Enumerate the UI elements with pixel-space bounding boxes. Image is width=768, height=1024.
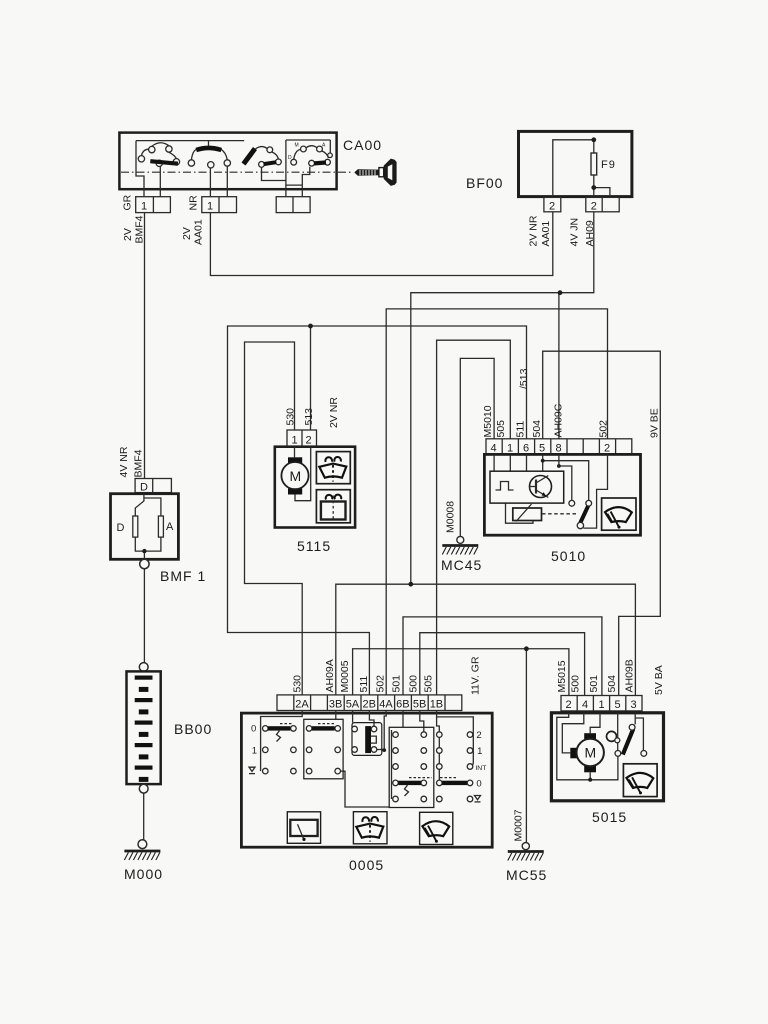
svg-text:1: 1 [252,745,257,756]
svg-text:3B: 3B [329,699,342,711]
svg-text:CA00: CA00 [343,137,382,153]
svg-text:5A: 5A [346,699,360,711]
svg-text:GR: GR [122,194,134,210]
svg-text:5115: 5115 [297,538,331,554]
svg-text:1: 1 [292,435,298,447]
svg-text:6: 6 [523,443,529,455]
svg-text:502: 502 [375,675,387,693]
svg-text:513: 513 [303,408,315,426]
svg-text:5015: 5015 [592,809,627,825]
svg-text:BMF4: BMF4 [133,449,145,477]
svg-text:A: A [166,521,174,533]
svg-text:D: D [117,522,125,534]
svg-text:INT: INT [475,765,486,772]
svg-text:2V: 2V [122,228,134,241]
svg-text:MC45: MC45 [441,557,482,573]
svg-text:AH09B: AH09B [624,659,636,692]
svg-text:4: 4 [582,699,588,711]
svg-text:2: 2 [566,699,572,711]
svg-text:11V. GR: 11V. GR [470,656,482,695]
svg-text:502: 502 [598,420,610,438]
svg-text:5010: 5010 [551,548,586,564]
svg-text:AH09C: AH09C [553,403,565,437]
svg-text:504: 504 [606,675,618,693]
svg-text:M0008: M0008 [445,501,457,533]
svg-text:3: 3 [631,699,637,711]
svg-text:M0007: M0007 [513,809,525,841]
svg-text:/513: /513 [518,368,530,389]
svg-text:2V: 2V [181,227,193,240]
svg-text:0005: 0005 [349,857,384,873]
svg-text:1: 1 [507,443,513,455]
svg-text:2: 2 [591,201,597,213]
svg-text:2B: 2B [363,699,376,711]
svg-text:8: 8 [556,443,562,455]
svg-text:AH09A: AH09A [324,659,336,692]
svg-text:AH09: AH09 [584,220,596,246]
svg-text:0: 0 [251,724,256,735]
svg-text:4V NR: 4V NR [118,446,130,477]
svg-text:5: 5 [539,443,545,455]
svg-text:2: 2 [604,443,610,455]
svg-text:BB00: BB00 [174,721,212,737]
svg-text:511: 511 [358,676,370,693]
svg-text:M0005: M0005 [339,660,351,692]
svg-text:2: 2 [476,730,481,741]
svg-text:M: M [290,468,302,484]
svg-text:5B: 5B [413,699,426,711]
svg-text:AA01: AA01 [193,219,205,245]
svg-text:M5010: M5010 [482,405,494,437]
svg-text:2: 2 [549,201,555,213]
svg-text:505: 505 [423,675,435,693]
svg-text:2V NR: 2V NR [528,215,540,246]
svg-text:AA01: AA01 [540,221,552,247]
svg-text:BF00: BF00 [466,175,503,191]
svg-text:2: 2 [306,435,312,447]
svg-text:500: 500 [570,675,582,693]
svg-text:2A: 2A [295,699,309,711]
svg-text:2V NR: 2V NR [328,397,340,428]
svg-text:5V BA: 5V BA [653,665,665,695]
svg-text:501: 501 [588,675,600,693]
svg-text:NR: NR [188,195,200,211]
svg-text:F9: F9 [601,159,616,171]
svg-text:M000: M000 [124,866,163,882]
svg-text:4: 4 [491,443,497,455]
svg-text:6B: 6B [396,699,409,711]
svg-text:4A: 4A [379,699,393,711]
svg-text:D: D [140,482,148,494]
svg-text:500: 500 [408,675,420,693]
svg-text:0: 0 [476,779,481,790]
svg-text:1: 1 [207,201,213,213]
svg-text:MC55: MC55 [506,867,547,883]
svg-text:5: 5 [615,699,621,711]
svg-text:504: 504 [531,420,543,438]
svg-text:1: 1 [141,201,147,213]
svg-text:M: M [295,143,299,149]
svg-text:505: 505 [495,420,507,438]
svg-text:BMF4: BMF4 [134,215,146,243]
svg-text:1: 1 [477,746,482,757]
svg-text:D: D [288,155,292,161]
svg-text:BMF 1: BMF 1 [160,568,206,584]
svg-text:1: 1 [599,699,605,711]
svg-text:9V BE: 9V BE [649,408,661,438]
svg-text:4V JN: 4V JN [569,218,581,247]
svg-text:530: 530 [292,675,304,693]
svg-text:M: M [585,745,597,761]
svg-text:M5015: M5015 [556,660,568,692]
svg-text:1B: 1B [430,699,443,711]
svg-text:511: 511 [515,421,527,438]
svg-text:530: 530 [285,408,297,426]
svg-text:501: 501 [391,675,403,693]
